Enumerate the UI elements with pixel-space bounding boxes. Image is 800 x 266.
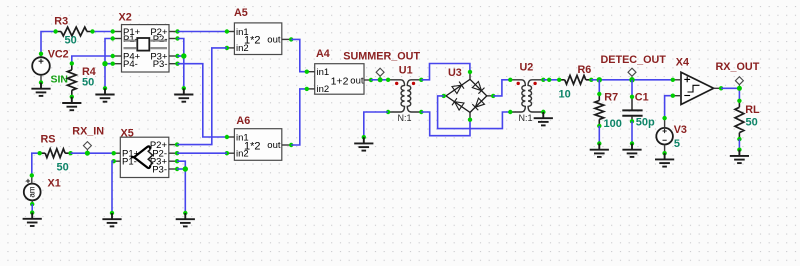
diode bridge U3 [444,72,494,120]
4-port hybrid X2 [122,25,170,72]
multiplier A6 [234,129,281,161]
bridge terminal dots [442,70,496,122]
wire C1 to ground [631,121,633,143]
tie DETEC_OUT [628,68,636,76]
AM source X1 [24,175,41,204]
wire X5.P2- to A6.in2 [177,152,227,154]
wire R4 top to X2.P4+ [72,56,113,63]
pin stubs X2 left [113,31,122,33]
svg-text:N:1: N:1 [519,113,533,123]
ground (R4) [62,97,81,110]
svg-text:U1: U1 [399,65,413,77]
pin dots X5 [112,142,180,171]
wire A6.out to A4.in2 [291,89,307,145]
svg-text:X1: X1 [48,177,61,189]
ground (X5 left) [110,211,114,215]
wire U1 bottom-right to U3 bottom [421,112,470,136]
svg-text:A5: A5 [234,7,248,19]
comparator X4 [681,72,714,104]
svg-text:U3: U3 [448,67,462,79]
wire U2 top-right to R6 [543,79,559,81]
svg-text:50: 50 [65,35,77,47]
resistor R7 [598,94,600,126]
wire R7 to ground [598,126,600,144]
ground (X2 right) [182,86,186,90]
wire U1 top-right to U3 top [421,64,470,80]
svg-text:A6: A6 [236,115,250,127]
svg-text:out: out [267,35,281,46]
svg-text:100: 100 [604,118,622,130]
ground (U1) [362,135,366,139]
ground (X1) [30,210,34,214]
svg-text:am: am [28,186,37,197]
wire X1 to ground [31,204,33,213]
wire X2.P2-/P3+ to ground [178,39,184,89]
wire X2.P1- to X2.P4- and ground [105,39,113,89]
pin stubs X5 left [114,152,121,154]
pin stubs X5 right [169,144,177,146]
svg-text:1*2: 1*2 [244,140,261,152]
svg-text:out: out [267,140,281,151]
tie SUMMER_OUT [376,68,384,76]
svg-text:VC2: VC2 [48,49,69,61]
wire A5.out to A4.in1 [291,39,307,71]
resistor R4 [71,63,73,96]
wire X5.P3+/P3- to ground [177,161,185,213]
wire RS to RX_IN node to X5.P1+ [71,152,114,154]
svg-text:SIN: SIN [51,73,69,85]
svg-text:C1: C1 [635,92,649,104]
resistor R3 [56,31,93,33]
tie RX_OUT [735,77,743,85]
battery V3 [656,118,673,153]
svg-text:50: 50 [82,76,94,88]
wire VC2 top to R3 [41,32,56,54]
ground (X2 left) [103,86,107,90]
resistor RS [40,152,71,154]
polarity dots U2 [517,82,520,85]
X2 coupled-line symbol [124,38,168,51]
sine source VC2 [32,54,50,83]
resistor R6 [559,79,591,81]
svg-text:RX_IN: RX_IN [72,126,104,138]
svg-text:50: 50 [57,161,69,173]
svg-text:50: 50 [746,117,758,129]
svg-text:5: 5 [674,138,680,150]
transformer U1 [388,80,421,112]
ground (VC2) [39,80,43,84]
svg-text:N:1: N:1 [398,113,412,123]
wire RL to ground [738,139,740,150]
svg-text:R6: R6 [578,64,592,76]
svg-text:RS: RS [41,134,56,146]
svg-text:DETEC_OUT: DETEC_OUT [601,54,667,66]
wire X2.P2+ to A5.in1 [178,31,227,33]
wire U1 bottom-left to ground [364,112,388,137]
svg-text:P3-: P3- [153,59,168,70]
multiplier A5 [234,23,281,55]
ground (R7) [597,141,601,145]
ground (RL) [737,148,741,152]
svg-text:A4: A4 [316,48,330,60]
wire X4.out to RL (node RX_OUT) [721,88,739,101]
svg-text:in2: in2 [317,84,330,95]
transformer U2 [510,80,543,112]
svg-text:50p: 50p [636,117,655,129]
ground (U2) [541,110,545,114]
pin stubs X4 [673,79,681,81]
resistor RL [738,101,740,139]
svg-text:out: out [350,75,364,86]
ground (C1) [630,141,634,145]
splitter X5 [120,137,169,177]
wire U3 left to U2 bottom-left [438,96,511,129]
wire X5.P1- to ground [112,161,114,213]
X5 splitter symbol [131,146,151,168]
polarity dots U1 [395,82,398,85]
svg-text:R3: R3 [54,15,68,27]
wire U3 right to U2 top-left [493,80,510,96]
wire X1 top to RS [32,153,40,175]
wire node to C1 [631,80,633,97]
capacitor C1 [622,97,642,122]
svg-text:RX_OUT: RX_OUT [716,61,760,73]
wire X5.P2+ to A5.in2 [177,48,227,145]
svg-text:P4-: P4- [123,59,138,70]
wire X2.P3- to A6.in1 [178,64,227,137]
svg-text:1*2: 1*2 [244,35,261,47]
wire R6 to R7/C1/X4 node [591,79,673,81]
svg-text:P3-: P3- [152,164,167,175]
tie RX_IN [83,142,91,150]
wire node to R7 [598,80,600,94]
wire V3 to X4 inverting input [665,96,673,118]
pin dots X2 [111,29,180,66]
summer A4 [315,64,364,94]
pin stubs X2 right [169,31,178,33]
svg-text:U2: U2 [520,62,534,74]
svg-text:R7: R7 [604,92,618,104]
svg-text:RL: RL [745,104,760,116]
wire A4.out to U1 (node SUMMER_OUT) [371,79,388,81]
ground (X5 right) [183,211,187,215]
svg-text:10: 10 [559,88,571,100]
ground (V3) [662,151,666,155]
svg-text:SUMMER_OUT: SUMMER_OUT [343,51,420,63]
svg-text:1+2: 1+2 [331,75,349,87]
svg-text:in1: in1 [317,67,330,78]
svg-text:V3: V3 [674,124,687,136]
svg-text:X4: X4 [676,57,689,69]
wire R3 to X2.P1+ [93,31,113,33]
svg-text:X2: X2 [119,11,132,23]
